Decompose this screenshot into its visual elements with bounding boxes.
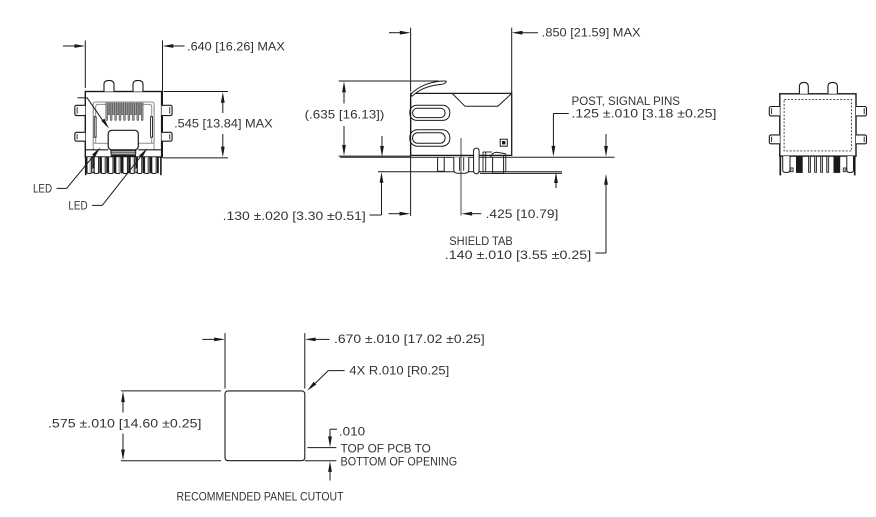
seating plane line: [340, 156, 615, 158]
side view latch window slot A outer: [410, 105, 450, 120]
svg-text:LED: LED: [68, 199, 87, 213]
dimension .850 MAX arrow left: [389, 32, 401, 34]
dimension .140 leader elbow and arrows: [605, 134, 607, 147]
dimension .125 leader elbow and arrows: [553, 113, 568, 115]
dimension .635 dimension line and arrows: [343, 84, 345, 104]
rear view comb side edges: [779, 156, 781, 175]
front view post right: [133, 80, 143, 91]
svg-text:.130 ±.020 [3.30 ±0.51]: .130 ±.020 [3.30 ±0.51]: [223, 209, 366, 223]
side view latch window slot B outer: [410, 130, 450, 146]
svg-text:.575 ±.010 [14.60 ±0.25]: .575 ±.010 [14.60 ±0.25]: [48, 416, 201, 430]
dimension .575 extension lines: [121, 390, 221, 392]
dimension .545 MAX dimension line and arrows: [222, 96, 224, 113]
side view top chamfer facet: [452, 93, 512, 106]
side view latch window slot A inner: [413, 108, 446, 117]
dimension .670 arrow right: [315, 338, 330, 340]
dimension .010 leader elbow: [330, 428, 337, 430]
leader to contact area: [78, 97, 88, 99]
pin centerline: [460, 138, 462, 216]
svg-text:SHIELD TAB: SHIELD TAB: [449, 234, 512, 248]
dimension .130 leader elbow: [370, 214, 382, 216]
svg-text:(.635 [16.13]): (.635 [16.13]): [305, 108, 385, 122]
pin tip line: [378, 171, 562, 173]
front view bottom shield fingers comb: [87, 157, 91, 173]
shield tab tip line: [480, 172, 562, 174]
front view mounting tab lower-left: [75, 132, 86, 141]
panel cutout rectangle: [225, 391, 305, 461]
svg-text:.425 [10.79]: .425 [10.79]: [486, 207, 559, 221]
LED leader 1: [57, 187, 67, 189]
svg-text:.670 ±.010 [17.02 ±0.25]: .670 ±.010 [17.02 ±0.25]: [334, 332, 485, 346]
dimension .575 dimension line and arrows: [122, 394, 124, 413]
svg-text:.010: .010: [339, 425, 366, 439]
dimension .425 arrow right: [471, 213, 481, 215]
rear view mounting tab lower-left: [769, 135, 780, 144]
svg-text:4X R.010 [R0.25]: 4X R.010 [R0.25]: [349, 363, 449, 377]
rear view post right: [828, 82, 837, 93]
front view left inner slot: [94, 117, 96, 138]
dimension .850 MAX extension line left (front face): [410, 28, 412, 92]
side view latch window slot B inner: [413, 133, 446, 143]
front view plug latch cutout: [108, 130, 138, 150]
dimension .640 MAX arrow right: [173, 45, 185, 47]
front view comb grey notches: [92, 168, 94, 172]
front view latch slot steps: [110, 150, 112, 155]
side view shield dimple square: [500, 139, 507, 146]
panel cutout extension lines top: [224, 333, 226, 388]
svg-text:.640 [16.26] MAX: .640 [16.26] MAX: [187, 39, 285, 53]
side view body outline: [411, 93, 512, 155]
svg-text:.125 ±.010 [3.18 ±0.25]: .125 ±.010 [3.18 ±0.25]: [572, 107, 717, 121]
dimension .850 MAX extension line right (rear face): [511, 28, 513, 94]
front view contact comb (8 contacts): [106, 103, 108, 121]
side view shield tab: [490, 152, 505, 157]
side view post bracket: [482, 152, 484, 172]
dimension .545 MAX extension lines: [164, 91, 229, 93]
side view pin stub B with hole: [454, 157, 469, 173]
side view through post (oval): [474, 148, 480, 174]
front view comb side edges: [85, 157, 87, 175]
rear view mounting tab upper-right: [856, 107, 867, 116]
svg-text:RECOMMENDED PANEL CUTOUT: RECOMMENDED PANEL CUTOUT: [177, 489, 345, 503]
front view latch slot dark bar: [111, 154, 136, 156]
dimension .130 arrows: [381, 136, 383, 147]
4X R.010 leader: [328, 370, 344, 372]
dimension .670 arrow left: [202, 338, 214, 340]
front view mounting tab upper-right: [162, 105, 173, 115]
front view post left: [104, 80, 114, 91]
front view shield body outline: [85, 92, 161, 158]
dimension .640 MAX extension line left: [84, 41, 86, 89]
dimension .640 MAX extension line right: [162, 41, 164, 158]
rear view mounting tab upper-left: [769, 107, 780, 116]
side view front face line: [410, 93, 412, 155]
rear view dashed shield seam: [784, 99, 851, 150]
svg-text:.850 [21.59] MAX: .850 [21.59] MAX: [542, 26, 641, 40]
front view opening bottom ledge lines: [93, 142, 108, 144]
side view pin stub A: [437, 157, 439, 171]
svg-text:BOTTOM OF OPENING: BOTTOM OF OPENING: [341, 454, 458, 468]
dimension .010 up arrow: [329, 471, 331, 481]
front view mounting tab upper-left: [75, 105, 86, 115]
svg-text:.545 [13.84] MAX: .545 [13.84] MAX: [174, 116, 273, 130]
side view latch blade: [411, 81, 447, 96]
front view jack opening inner edge: [96, 104, 152, 143]
front view right inner slot: [151, 117, 153, 138]
rear view body outline: [780, 94, 856, 156]
dimension .010 gap lines: [307, 447, 336, 449]
front view jack opening outer edge: [93, 102, 154, 143]
front view mounting tab lower-right: [162, 132, 173, 141]
dimension .635 extension line bottom: [339, 155, 410, 157]
rear view bottom shield fingers: [783, 156, 790, 172]
LED leader 2: [92, 204, 102, 206]
dimension .425 arrow left: [389, 213, 401, 215]
dimension .640 MAX arrow left: [63, 45, 76, 47]
dimension .850 MAX arrow right: [522, 32, 538, 34]
dimension .635 extension line top: [339, 80, 439, 82]
svg-text:LED: LED: [33, 182, 52, 196]
svg-text:TOP OF PCB TO: TOP OF PCB TO: [341, 441, 431, 455]
svg-text:.140 ±.010 [3.55 ±0.25]: .140 ±.010 [3.55 ±0.25]: [445, 248, 591, 262]
rear view mounting tab lower-right: [856, 135, 867, 144]
rear view post left: [799, 82, 808, 93]
